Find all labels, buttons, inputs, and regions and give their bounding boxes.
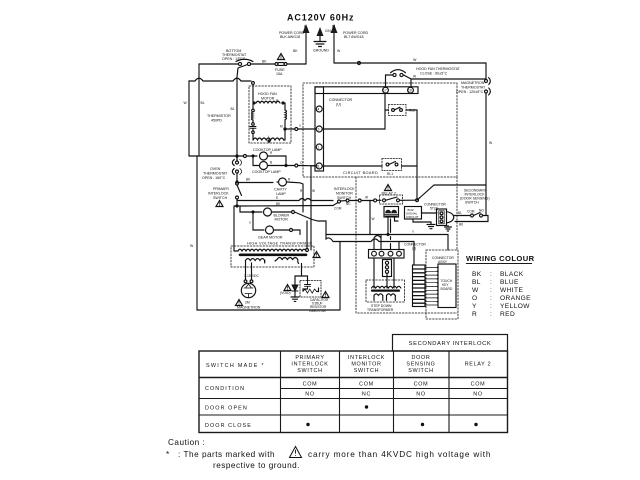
svg-text:(VOID): (VOID) <box>280 291 291 295</box>
wire left vertical W <box>188 81 190 156</box>
svg-text:NO: NO <box>416 392 426 398</box>
svg-text:THERMOSTAT: THERMOSTAT <box>203 172 228 176</box>
hood fan motor winding H <box>253 99 284 105</box>
wire RL2 right to riser <box>406 110 417 198</box>
thermistor box bottom wire <box>189 155 237 157</box>
pin 3 <box>316 126 322 132</box>
node lamp feed on left bus <box>236 155 238 157</box>
svg-text:BLT AWG18: BLT AWG18 <box>344 35 364 39</box>
svg-text:2M: 2M <box>245 301 250 305</box>
svg-text:WHITE: WHITE <box>500 287 523 294</box>
wire blower joint diagonal <box>295 212 327 235</box>
svg-text:W: W <box>372 217 375 221</box>
svg-text:INTERLOCK: INTERLOCK <box>291 362 328 368</box>
step down transformer enclosure <box>366 280 405 302</box>
svg-text:TRANSFORMER: TRANSFORMER <box>367 308 394 312</box>
svg-text::: : <box>490 279 492 286</box>
magnetron thermostat riser <box>485 63 487 185</box>
wire riser W to Y bus <box>369 201 371 235</box>
svg-text:BLK AWG18: BLK AWG18 <box>280 35 300 39</box>
svg-text:BL: BL <box>458 211 462 215</box>
svg-text:17: 17 <box>383 89 387 93</box>
svg-text:INTERLOCK: INTERLOCK <box>348 355 385 361</box>
node gear right joint <box>290 229 293 232</box>
svg-text:NO: NO <box>473 392 483 398</box>
svg-text:carry more than 4KVDC high vol: carry more than 4KVDC high voltage with <box>308 450 491 459</box>
svg-text:18: 18 <box>408 89 412 93</box>
wire lamps join <box>285 156 316 167</box>
table marks <box>306 405 477 426</box>
svg-text:PRIMARY: PRIMARY <box>213 187 230 191</box>
wire hood fan thermostat right leg <box>403 75 486 87</box>
caution warning triangle <box>290 447 302 458</box>
svg-text:RL1: RL1 <box>387 172 393 176</box>
magnetron warning triangle <box>236 300 243 306</box>
cooktop lamp 2 branch <box>252 156 254 166</box>
blower motor <box>264 208 292 216</box>
svg-text:respective to ground.: respective to ground. <box>213 461 300 470</box>
node bridge over left vertical <box>189 78 251 81</box>
HV diode <box>292 276 298 297</box>
svg-text:CIRCUIT BOARD: CIRCUIT BOARD <box>343 171 378 175</box>
wire into hood fan motor <box>252 82 255 97</box>
wire HVT primary left drop <box>234 206 237 251</box>
interlock monitor switch <box>333 199 351 211</box>
switch state table <box>199 335 508 433</box>
svg-text:GEAR MOTOR: GEAR MOTOR <box>258 236 283 240</box>
HV diode warning triangle <box>284 285 291 291</box>
bleeder resistor <box>303 288 319 293</box>
primary interlock switch <box>236 182 242 206</box>
svg-text:COOKTOP LAMP: COOKTOP LAMP <box>252 170 281 174</box>
wire cavity return risers <box>300 184 315 212</box>
key connector strip <box>413 265 426 307</box>
svg-text:SWITCH: SWITCH <box>408 368 433 374</box>
svg-text:N: N <box>332 24 335 29</box>
svg-text:CAVITY: CAVITY <box>274 188 287 192</box>
svg-text:NO: NO <box>305 392 315 398</box>
svg-text:THERMISTOR: THERMISTOR <box>207 114 231 118</box>
svg-text:MONITOR: MONITOR <box>336 192 353 196</box>
svg-text:HOOD FAN THERMOSTAT: HOOD FAN THERMOSTAT <box>416 67 461 71</box>
bus BK horizontal <box>236 202 333 207</box>
touch key assy enclosure <box>426 250 458 319</box>
HV capacitor <box>305 281 311 289</box>
pin 11 <box>316 163 322 169</box>
HVT secondary winding <box>275 258 299 264</box>
touch key board <box>438 264 456 308</box>
svg-text:DOOR: DOOR <box>412 355 431 361</box>
relay RL1 <box>382 159 402 177</box>
svg-text:SWITCH: SWITCH <box>297 368 322 374</box>
ground below buz <box>427 225 435 229</box>
svg-text:COOKTOP LAMP: COOKTOP LAMP <box>253 148 282 152</box>
svg-text:COM: COM <box>471 382 486 388</box>
svg-text::: : <box>490 271 492 278</box>
hood fan motor main winding L <box>253 129 285 142</box>
wire monitor switch to relay2 <box>349 196 381 203</box>
svg-text:BL: BL <box>231 107 235 111</box>
wire hood fan thermostat left leg <box>386 75 393 87</box>
ground below diode <box>291 297 299 301</box>
pin 1 <box>316 144 322 150</box>
svg-text:GN: GN <box>325 29 331 33</box>
hood fan motor enclosure <box>249 86 291 143</box>
svg-text:W: W <box>472 287 479 294</box>
connector J1 body <box>315 87 324 171</box>
svg-text:NC: NC <box>346 202 351 206</box>
circuit board enclosure <box>303 83 457 177</box>
svg-text:10MΩ 0.5W: 10MΩ 0.5W <box>309 309 326 313</box>
bus E horizontal <box>237 196 333 201</box>
HVT primary winding <box>234 249 309 255</box>
power board enclosure <box>356 177 457 313</box>
ground GN terminal <box>317 27 331 41</box>
svg-text:BK: BK <box>262 60 267 64</box>
svg-text:HOOD FAN: HOOD FAN <box>258 92 277 96</box>
wire pin3 to pin17 riser <box>323 93 386 129</box>
wires into connector J3 <box>374 219 399 250</box>
gear motor branch <box>249 211 264 230</box>
svg-text:COM: COM <box>359 382 374 388</box>
magnetron thermostat <box>485 78 491 96</box>
svg-text:CIRCUIT: CIRCUIT <box>406 215 419 219</box>
svg-text:MONITOR: MONITOR <box>351 362 381 368</box>
svg-text:DOOR OPEN: DOOR OPEN <box>205 406 248 412</box>
high voltage transformer enclosure <box>231 246 314 267</box>
wire Y bus right drop <box>447 235 449 251</box>
svg-text:SWITCH: SWITCH <box>213 196 228 200</box>
pin 4 <box>316 106 322 112</box>
wire door switch loop <box>447 185 488 227</box>
svg-text:BK: BK <box>293 49 298 53</box>
svg-text:* : The parts marked with: * : The parts marked with <box>166 450 275 459</box>
wire thermostat blade down <box>237 65 248 78</box>
svg-text:ASSY: ASSY <box>438 260 448 264</box>
svg-text:CLOSE : 60±5°C: CLOSE : 60±5°C <box>420 72 448 76</box>
svg-text:RED: RED <box>500 311 515 318</box>
fuse warning triangle <box>278 54 285 60</box>
wire RL1 right to riser <box>402 165 418 167</box>
relay 1 component <box>383 260 392 277</box>
left long W wire <box>196 156 198 310</box>
bottom thermostat <box>236 59 253 65</box>
HVT filament winding <box>246 259 265 263</box>
svg-text:BLACK: BLACK <box>500 271 524 278</box>
svg-text:SWITCH: SWITCH <box>354 368 379 374</box>
pins 17 18 header <box>315 87 418 94</box>
svg-text:450PD: 450PD <box>211 119 222 123</box>
wire cavity lamp branch <box>248 182 273 184</box>
svg-text:INTERLOCK: INTERLOCK <box>208 192 229 196</box>
svg-text:Caution :: Caution : <box>168 438 205 447</box>
svg-text:3: 3 <box>318 128 320 132</box>
wire pin11 to RL1 <box>323 165 383 167</box>
HVT warning triangle <box>313 252 320 258</box>
wire magnetron thermostat return <box>420 185 486 198</box>
wiring colour legend <box>466 254 535 318</box>
node primary interlock top <box>236 178 251 184</box>
svg-text:Y: Y <box>472 303 477 310</box>
ground symbol <box>313 42 329 53</box>
relay RL2 <box>389 105 416 116</box>
svg-text:W: W <box>413 75 416 79</box>
wire left from thermostat <box>199 64 238 77</box>
svg-text:BL: BL <box>201 101 205 105</box>
wire W riser right of lamps <box>311 166 316 250</box>
svg-text::: : <box>490 311 492 318</box>
svg-text:PRIMARY: PRIMARY <box>295 355 324 361</box>
wire buz ground drop <box>413 219 431 224</box>
svg-text:MOTOR: MOTOR <box>275 218 289 222</box>
wire N bus to right <box>334 58 486 65</box>
svg-text:E: E <box>276 196 278 200</box>
svg-text:M: M <box>280 125 283 129</box>
wire bottom corner riser <box>339 242 341 311</box>
svg-text::: : <box>490 287 492 294</box>
svg-text:R: R <box>472 311 477 318</box>
wire thermostat to fuse <box>251 63 275 65</box>
hood fan motor capacitor branch <box>250 97 256 140</box>
svg-text:RELAY 2: RELAY 2 <box>465 362 492 368</box>
svg-text:OPEN : 120±5°C: OPEN : 120±5°C <box>456 90 484 94</box>
svg-text:ORANGE: ORANGE <box>500 295 531 302</box>
svg-text:COM: COM <box>467 210 475 214</box>
wire buz to connector <box>422 212 438 214</box>
svg-text:THERMOSTAT: THERMOSTAT <box>461 86 486 90</box>
svg-text:SWITCH MADE *: SWITCH MADE * <box>206 363 265 369</box>
gear motor <box>266 226 290 234</box>
svg-text:B: B <box>270 161 272 165</box>
svg-text:CONNECTOR: CONNECTOR <box>329 98 352 102</box>
wire relay2 coil drops <box>388 217 398 235</box>
second lower bus <box>326 235 414 242</box>
relay 2 warning triangle <box>385 185 392 191</box>
svg-text:DOOR CLOSE: DOOR CLOSE <box>205 423 252 429</box>
svg-text:COM: COM <box>334 207 342 211</box>
caution note <box>166 438 491 470</box>
thermistor box left edge <box>198 77 200 156</box>
svg-text:COM: COM <box>303 382 318 388</box>
wire relay2 contacts right <box>400 198 421 201</box>
svg-text:SWITCH: SWITCH <box>465 201 479 205</box>
bottom outer wire <box>197 309 340 311</box>
primary interlock warning triangle <box>216 201 223 207</box>
relay 2 coil <box>384 207 399 218</box>
connector 5T body <box>437 209 454 226</box>
wire right riser to door switch <box>485 185 487 216</box>
svg-text:WIRING COLOUR: WIRING COLOUR <box>466 254 535 263</box>
door sensing switch <box>454 209 488 218</box>
svg-text:1: 1 <box>318 146 320 150</box>
svg-text:CONDITION: CONDITION <box>205 386 245 392</box>
node M hood fan motor <box>280 125 286 131</box>
Y bus lower <box>326 230 448 236</box>
svg-text:15A: 15A <box>276 72 283 76</box>
svg-text:AC120V 60Hz: AC120V 60Hz <box>287 13 354 23</box>
svg-text:GROUND: GROUND <box>313 49 329 53</box>
svg-text:11: 11 <box>316 165 320 169</box>
wire to lamps <box>238 155 257 158</box>
HV capacitor enclosure <box>300 281 321 298</box>
wire RL2 left <box>385 109 389 111</box>
SDT winding <box>372 286 401 295</box>
svg-text:L: L <box>268 135 270 139</box>
svg-text:O: O <box>472 295 478 302</box>
cooktop lamp 1 <box>260 151 287 160</box>
blower motor branch <box>240 206 262 212</box>
hood fan motor right coil <box>283 103 287 129</box>
relay 2 contacts <box>380 195 403 204</box>
svg-text:BL: BL <box>472 279 481 286</box>
magnetron 2M214 <box>241 283 255 297</box>
svg-text:BLUE: BLUE <box>500 279 519 286</box>
wire drop to key connector <box>413 242 415 266</box>
wire HV secondary down <box>295 264 308 282</box>
hood fan thermostat <box>391 70 406 77</box>
svg-text:HIGH VOLTAGE TRANSFORMER: HIGH VOLTAGE TRANSFORMER <box>247 242 312 246</box>
ribbon wires <box>425 268 438 306</box>
wire M to connector pin 3 <box>286 124 316 131</box>
svg-text:OVEN: OVEN <box>210 167 221 171</box>
connector J3 body <box>369 250 405 259</box>
power cord L terminal <box>303 24 310 64</box>
svg-text:W: W <box>312 189 315 193</box>
svg-text:OPEN : 160°C: OPEN : 160°C <box>202 176 226 180</box>
svg-text:YELLOW: YELLOW <box>500 303 530 310</box>
svg-text:SECONDARY INTERLOCK: SECONDARY INTERLOCK <box>409 341 492 347</box>
oven thermostat <box>232 156 241 182</box>
svg-text:MAGNETRON: MAGNETRON <box>237 306 261 310</box>
svg-text:W: W <box>413 58 417 62</box>
svg-text:BOARD: BOARD <box>441 287 453 291</box>
svg-text:4: 4 <box>318 108 320 112</box>
wire HVT primary right riser <box>306 221 308 249</box>
ground below connector 5T <box>445 226 452 232</box>
svg-text:INTERLOCK: INTERLOCK <box>334 187 355 191</box>
svg-text:NC: NC <box>362 392 371 398</box>
svg-text:COM: COM <box>414 382 429 388</box>
wire filament to magnetron <box>244 261 265 283</box>
fuse F1 15A <box>275 63 287 77</box>
power cord N terminal <box>331 24 338 63</box>
node blower right joint <box>292 211 295 214</box>
SDT pins <box>374 296 395 301</box>
cooktop lamp 2 <box>253 161 295 170</box>
main left bus from thermostat <box>236 77 238 160</box>
wire gear joint to Y bus <box>293 230 301 235</box>
wire fuse to L riser <box>287 63 306 65</box>
svg-text:BK: BK <box>472 271 482 278</box>
svg-text:MOTOR: MOTOR <box>261 97 275 101</box>
svg-text:SWITCH: SWITCH <box>337 196 352 200</box>
svg-text:SENSING: SENSING <box>406 362 435 368</box>
ribbon terminal dots <box>437 267 439 303</box>
svg-text:MAGNETRON: MAGNETRON <box>461 81 485 85</box>
svg-text:(U): (U) <box>336 103 341 107</box>
capacitor warning triangle <box>322 292 329 298</box>
svg-text:W: W <box>365 196 368 200</box>
svg-text::: : <box>490 295 492 302</box>
wire connector to SDT <box>374 258 394 288</box>
svg-text::: : <box>490 303 492 310</box>
cavity lamp <box>277 178 303 187</box>
svg-text:NO: NO <box>479 209 484 213</box>
buzzer signal circuit box <box>405 207 422 220</box>
